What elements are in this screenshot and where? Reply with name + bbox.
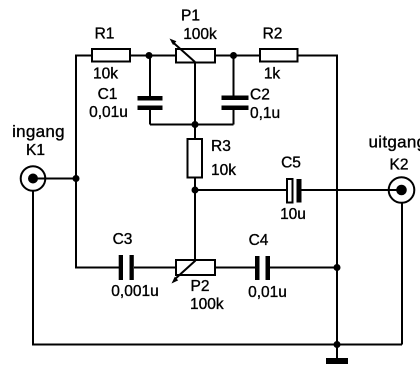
svg-text:C1: C1 — [98, 86, 118, 103]
junction R1/P1/C1 — [146, 52, 153, 59]
svg-text:0,1u: 0,1u — [250, 105, 280, 122]
wire ground stub — [336, 345, 338, 359]
svg-text:10k: 10k — [211, 162, 236, 179]
resistor R2 — [260, 49, 298, 62]
svg-text:C5: C5 — [281, 155, 301, 172]
svg-text:K1: K1 — [26, 142, 45, 159]
potentiometer P2 — [172, 260, 216, 284]
wire P2 to C4 — [215, 267, 255, 269]
svg-text:0,001u: 0,001u — [111, 283, 158, 300]
junction P1/R2/C2 — [230, 52, 237, 59]
junction C4/right rail — [334, 264, 341, 271]
capacitor C4 — [255, 256, 270, 280]
connector K1 input jack — [21, 166, 46, 191]
svg-text:P2: P2 — [191, 278, 210, 295]
junction K1/left rail — [73, 175, 80, 182]
junction ground/bottom rail — [334, 341, 341, 348]
svg-text:R3: R3 — [211, 138, 231, 155]
wire K2 shield down to ground rail — [401, 203, 403, 345]
svg-text:K2: K2 — [390, 157, 409, 174]
junction wiper/C1/C2 bus — [192, 121, 199, 128]
svg-text:ingang: ingang — [12, 122, 65, 141]
svg-text:C4: C4 — [249, 232, 269, 249]
potentiometer P1 — [170, 39, 216, 63]
svg-text:0,01u: 0,01u — [248, 284, 287, 301]
wire C3 to P2 — [134, 267, 176, 269]
wire junction to C5 — [195, 189, 287, 191]
wire C1 top lead — [149, 56, 151, 97]
svg-text:R2: R2 — [263, 26, 283, 43]
capacitor C3 — [119, 255, 134, 280]
wire R3 bottom lead — [194, 178, 196, 191]
svg-text:P1: P1 — [181, 8, 200, 25]
wire C2 top lead — [233, 56, 235, 96]
wire K1 to junction — [33, 178, 76, 180]
electrolytic capacitor C5 — [287, 179, 302, 203]
connector K2 output jack — [389, 177, 415, 203]
svg-text:10k: 10k — [93, 66, 118, 83]
wire C1 bottom lead — [149, 110, 151, 125]
wire K1 shield down to ground rail — [33, 191, 402, 345]
resistor R1 — [92, 49, 130, 62]
wire R3 junction down to P2 wiper — [194, 190, 196, 261]
svg-text:0,01u: 0,01u — [89, 104, 128, 121]
svg-text:1k: 1k — [264, 66, 281, 83]
svg-text:10u: 10u — [280, 206, 306, 223]
svg-text:C3: C3 — [113, 231, 133, 248]
wire from R1 left lead down left rail to K1 junction — [76, 56, 92, 179]
svg-text:uitgang: uitgang — [369, 133, 420, 152]
resistor R3 — [188, 139, 203, 178]
wire from K1 junction down to C3 row — [76, 179, 119, 268]
wire C1 to C2 bottom bus — [150, 124, 234, 126]
wire R1 to P1 — [130, 55, 176, 57]
svg-text:C2: C2 — [250, 87, 270, 104]
svg-text:100k: 100k — [190, 296, 224, 313]
wire C4 to right rail — [270, 267, 337, 269]
capacitor C1 — [138, 96, 163, 110]
wire R3 top lead — [194, 125, 196, 140]
junction R3/C5/P2 — [192, 187, 199, 194]
wire C2 bottom lead — [233, 110, 235, 125]
wire P1 to R2 — [215, 55, 260, 57]
wire P1 wiper drop — [194, 63, 196, 125]
svg-text:100k: 100k — [183, 26, 217, 43]
wire R2 to right rail — [298, 55, 338, 57]
wire C5 to K2 — [302, 189, 403, 191]
ground — [326, 358, 348, 364]
capacitor C2 — [222, 96, 249, 111]
wire right vertical rail — [336, 55, 338, 345]
svg-text:R1: R1 — [95, 26, 115, 43]
